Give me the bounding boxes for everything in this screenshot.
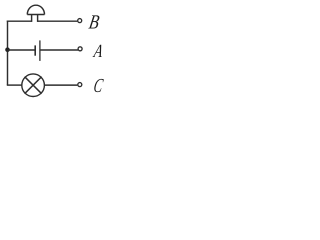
battery cell: short plate (negative) (34, 45, 36, 55)
svg-text:B: B (87, 12, 101, 34)
wire: top branch, bus to bell left stem (7, 20, 32, 22)
terminal B (open circle) (78, 19, 82, 23)
terminal C (open circle) (78, 83, 82, 87)
svg-text:A: A (91, 41, 105, 62)
bell: dome (semicircular cap) (27, 5, 44, 14)
wire: middle branch, junction to battery (8, 49, 35, 51)
battery cell: long plate (positive) (39, 40, 41, 61)
lamp: X diagonal 1 (25, 77, 42, 94)
terminal A (open circle) (78, 47, 82, 51)
lamp: X diagonal 2 (25, 77, 42, 94)
wire: middle branch, battery to terminal A (40, 49, 78, 51)
wire: left vertical bus (7, 21, 9, 86)
lamp: circle (22, 74, 45, 97)
svg-text:C: C (92, 75, 105, 97)
bell: stem right leg (37, 15, 39, 22)
node: junction dot on bus (5, 47, 10, 52)
wire: top branch, bell right stem to terminal B (38, 20, 78, 22)
bell: base line under dome (27, 14, 44, 16)
wire: bottom branch, lamp to terminal C (44, 84, 77, 86)
bell: stem left leg (31, 15, 33, 22)
wire: bottom branch, bus to lamp (7, 84, 22, 86)
